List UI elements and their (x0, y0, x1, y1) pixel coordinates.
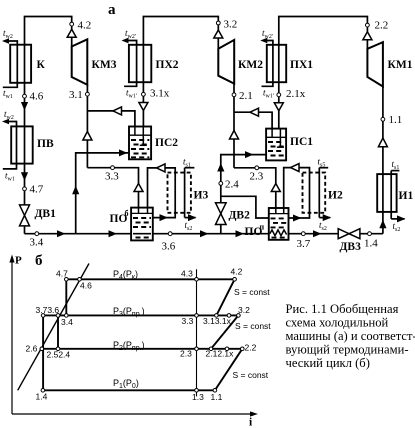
node 4.6 (78, 278, 82, 282)
check valve on suction (up) (378, 138, 387, 147)
suction header 2.3 (234, 168, 276, 208)
subcooler vessel POp (245, 208, 289, 240)
throttle 3.6-2.4 (57, 315, 59, 348)
node 3.2 (237, 314, 241, 318)
svg-text:Рис. 1.1 Обобщенная: Рис. 1.1 Обобщенная (286, 302, 399, 316)
PS1 vapour wire to suction (234, 112, 272, 128)
vapour flow arrow (left) (113, 107, 122, 115)
I2 vapour flow arrow (left) (291, 164, 300, 172)
svg-text:2.3: 2.3 (250, 171, 264, 183)
svg-text:2.4: 2.4 (225, 179, 239, 191)
svg-text:2.1: 2.1 (239, 90, 253, 102)
wire top-1 (K to KM3) (25, 17, 72, 47)
node 3.3 (105, 166, 119, 183)
precooler PH2 (122, 28, 179, 100)
mixing line 4.3-1.3 (196, 269, 198, 396)
svg-text:ПВ: ПВ (37, 138, 54, 150)
liquid separator POb (110, 208, 153, 241)
node 1.1 (213, 389, 217, 393)
svg-text:машины (а) и соответст-: машины (а) и соответст- (286, 329, 415, 343)
svg-text:P: P (15, 255, 22, 267)
I3 vapour flow arrow (left) (157, 164, 166, 172)
svg-text:4.7: 4.7 (56, 269, 68, 279)
node 3.1x (227, 314, 231, 318)
svg-text:2.3: 2.3 (180, 349, 192, 359)
svg-text:п: п (260, 223, 265, 232)
svg-text:КМ1: КМ1 (388, 59, 413, 71)
compressor KM3 (72, 39, 117, 85)
svg-text:3.2: 3.2 (238, 305, 250, 315)
I3 liquid feed from POb (153, 213, 175, 218)
svg-text:ПХ2: ПХ2 (156, 59, 179, 71)
svg-text:схема холодильной: схема холодильной (286, 316, 389, 330)
node 3.1 (215, 314, 219, 318)
isobar P3 (43, 314, 238, 316)
check valve into PS1 (down) (274, 103, 283, 111)
suction wire KM2 (2.1 line) (233, 84, 235, 168)
svg-text:И1: И1 (399, 190, 414, 202)
node 2.4 (219, 179, 239, 191)
svg-text:4.7: 4.7 (30, 184, 44, 196)
node 2.2 (366, 20, 389, 32)
svg-text:3.3: 3.3 (182, 316, 194, 326)
liquid bus 3.4-3.6-3.7 (25, 233, 269, 235)
subcooler PV (2, 109, 54, 183)
svg-text:3.4: 3.4 (30, 237, 44, 249)
check valve POb vapour (up) (134, 184, 143, 192)
node 1.3 (195, 389, 199, 393)
svg-text:3.73.6: 3.73.6 (36, 305, 60, 315)
compressor KM2 (218, 40, 263, 84)
svg-text:4.6: 4.6 (80, 281, 92, 291)
bus flow arrow 3 (200, 230, 209, 237)
bus flow arrow 5 (313, 230, 322, 237)
svg-text:4.2: 4.2 (231, 267, 243, 277)
isobar P4 (66, 278, 234, 280)
check valve at 3.2 (214, 30, 223, 38)
check valve at 4.2 (67, 29, 76, 37)
node 4.3 (195, 278, 199, 282)
flow arrow down (K to PV) (21, 102, 28, 111)
compression KM1 1.1-2.2 (215, 349, 242, 391)
riser flow arrow (up) (72, 186, 79, 195)
figure caption (286, 302, 415, 370)
I3 feed flow arrow (160, 214, 169, 221)
svg-text:КМ2: КМ2 (238, 59, 263, 71)
I1 feed flow arrow (up) (379, 220, 386, 229)
svg-text:3.1: 3.1 (69, 89, 83, 101)
PS2 vapour wire to suction (87, 111, 134, 127)
node 3.3 (195, 314, 199, 318)
wire bus to I1 (382, 212, 384, 234)
svg-text:3.1х: 3.1х (150, 88, 170, 100)
saturation line (18, 264, 89, 391)
wire top-3 (PH1 to KM1) (279, 17, 368, 49)
wire DV1 to bus (24, 226, 26, 234)
node 1.1 (381, 114, 402, 126)
svg-text:ДВ1: ДВ1 (35, 208, 57, 220)
expansion valve DV3 (338, 229, 361, 253)
node 3.7 (41, 314, 45, 318)
feed flow arrow (right) (119, 149, 128, 156)
i axis (12, 413, 252, 415)
svg-text:1.3: 1.3 (192, 392, 204, 402)
condenser K (2, 28, 46, 100)
svg-text:б: б (125, 209, 129, 218)
throttle 3.7-1.4 (42, 315, 44, 390)
label a (108, 2, 116, 18)
I2 feed flow arrow (293, 215, 302, 222)
wire PV to DV1 (24, 164, 26, 205)
svg-text:1.1: 1.1 (211, 392, 223, 402)
svg-text:2.2: 2.2 (245, 343, 257, 353)
node 3.6 (56, 314, 60, 318)
node 2.3 (250, 166, 264, 183)
node 4.6 (23, 91, 44, 103)
I2 liquid feed from POp (289, 213, 310, 218)
node 3.4 (30, 232, 44, 249)
precooler PH1 (260, 28, 313, 100)
svg-text:КМ3: КМ3 (92, 59, 117, 71)
wire I3 vapour into POb (148, 168, 176, 208)
wire I2 vapour into POp (284, 168, 310, 208)
check valve on suction (up) (230, 131, 239, 140)
svg-text:вующий термодинами-: вующий термодинами- (286, 343, 409, 357)
PS2 liquid feed riser (76, 153, 129, 234)
svg-text:1.4: 1.4 (36, 392, 48, 402)
svg-text:2.12.1х: 2.12.1х (206, 349, 235, 359)
bus flow arrow 2 (109, 230, 118, 237)
isobar P2 (41, 348, 242, 350)
node 2.6-2.5 (40, 347, 44, 351)
POp liquid feed branch (221, 196, 269, 218)
svg-text:3.6: 3.6 (162, 241, 176, 253)
svg-text:ческий цикл (б): ческий цикл (б) (286, 356, 370, 370)
svg-text:2.52.4: 2.52.4 (47, 350, 71, 360)
svg-text:3.2: 3.2 (224, 19, 238, 31)
svg-text:3.4: 3.4 (61, 317, 73, 327)
bus flow arrow 4 (236, 230, 245, 237)
check valve POp vapour (up) (271, 184, 280, 192)
svg-text:2.2: 2.2 (375, 20, 389, 32)
svg-text:S = const: S = const (235, 321, 271, 331)
isobar P1 (43, 389, 215, 391)
node 2.3 (195, 347, 199, 351)
svg-text:И2: И2 (328, 190, 343, 202)
node 2.1x (277, 88, 306, 100)
node 1.4 (364, 232, 378, 250)
svg-text:4.3: 4.3 (181, 269, 193, 279)
label b (35, 253, 43, 269)
suction wire KM3 (3.1 line) (86, 85, 88, 168)
wire PH2 to PS2 (142, 82, 144, 126)
node 1.4 (41, 389, 45, 393)
wire K to PV (24, 83, 26, 127)
node 4.2 (70, 20, 91, 32)
svg-text:S = const: S = const (233, 370, 269, 380)
node 3.4 (65, 314, 69, 318)
svg-text:3.7: 3.7 (297, 238, 311, 250)
svg-text:ДВ2: ДВ2 (229, 210, 251, 222)
svg-text:S = const: S = const (234, 287, 270, 297)
diagram point labels (26, 267, 272, 403)
evaporator I1 (377, 159, 413, 233)
svg-text:4.6: 4.6 (30, 91, 44, 103)
node 2.1 (232, 90, 253, 102)
suction wire KM1 (1.1 line) (382, 87, 384, 175)
node 3.2 (216, 19, 237, 31)
svg-text:4.2: 4.2 (78, 20, 92, 32)
node 4.2 (233, 278, 237, 282)
svg-text:3.13.1х: 3.13.1х (203, 316, 232, 326)
node 3.6 (162, 232, 176, 253)
svg-text:1.1: 1.1 (389, 114, 403, 126)
PS1 liquid feed riser / DV2 branch (221, 155, 266, 234)
svg-text:2.6: 2.6 (26, 344, 38, 354)
node 2.1 (209, 347, 213, 351)
svg-text:ПХ1: ПХ1 (290, 59, 313, 71)
expansion valve DV1 (20, 205, 57, 226)
flow arrow down (PV out) (21, 172, 28, 181)
svg-text:а: а (108, 2, 116, 18)
intermediate vessel PS1 (266, 129, 313, 161)
node 2.4 (56, 347, 60, 351)
svg-text:К: К (37, 59, 46, 71)
svg-text:ПС2: ПС2 (155, 137, 178, 149)
node 3.7 (297, 232, 311, 250)
evaporator I2 (dashed) (303, 157, 343, 233)
svg-text:2.1х: 2.1х (286, 88, 306, 100)
svg-text:ДВ3: ДВ3 (340, 241, 362, 253)
node 4.7 (23, 184, 44, 196)
throttle 4.7-3.4 (65, 279, 67, 315)
wire PH1 to PS1 (278, 82, 280, 128)
intermediate vessel PS2 (129, 127, 178, 160)
svg-text:б: б (35, 253, 43, 269)
compression KM2 2.1-3.2 (211, 315, 238, 348)
riser flow arrow (up) (217, 163, 224, 172)
check valve at 2.2 (363, 32, 372, 40)
expansion valve DV2 (216, 203, 251, 225)
node 3.1x (142, 88, 170, 100)
svg-text:И3: И3 (194, 190, 209, 202)
node 3.1 (69, 89, 89, 101)
compressor KM1 (367, 42, 412, 86)
evaporator I3 (dashed) (168, 157, 209, 233)
suction header 3.3 (87, 168, 138, 208)
bus flow arrow 1 (57, 230, 66, 237)
feed flow arrow (right) (245, 151, 254, 158)
node 2.2 (241, 347, 245, 351)
check valve on suction (up) (83, 132, 92, 141)
svg-text:3.3: 3.3 (105, 171, 119, 183)
vapour flow arrow (left) (250, 108, 259, 116)
svg-text:ПС1: ПС1 (290, 136, 313, 148)
check valve into PS2 (down) (139, 103, 148, 111)
node 4.7 (65, 278, 69, 282)
compression KM3 3.1-4.2 (216, 279, 234, 315)
P axis (11, 261, 13, 414)
node 2.1x (225, 347, 229, 351)
svg-text:1.4: 1.4 (364, 238, 378, 250)
wire top-2 (PH2 to KM2) (143, 17, 218, 49)
